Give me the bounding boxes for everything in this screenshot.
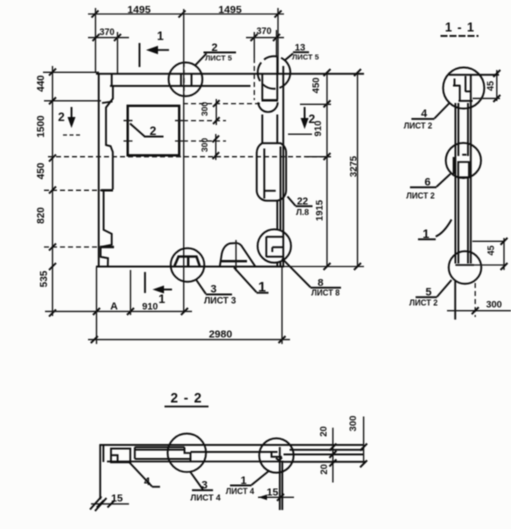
section 2-2 title bbox=[165, 391, 209, 407]
bottom dimension line A / 910 bbox=[45, 267, 192, 344]
bottom rail top edge bbox=[472, 240, 505, 242]
svg-text:1500: 1500 bbox=[36, 115, 47, 138]
right dimension line 450/910/1915 bbox=[300, 69, 331, 270]
section 1-1 base line and 300 bbox=[447, 300, 511, 315]
svg-text:2: 2 bbox=[150, 124, 157, 138]
label 1 / лист 4 bbox=[226, 471, 269, 496]
extension dashes y=247 left bbox=[44, 246, 100, 248]
panel left outer edge bbox=[98, 73, 100, 267]
label 4 (section 2-2) bbox=[130, 463, 161, 489]
svg-text:2980: 2980 bbox=[209, 328, 233, 340]
plank A bbox=[135, 447, 191, 459]
panel top edge bbox=[96, 73, 364, 75]
section 1-1 lower legs bbox=[455, 281, 475, 320]
panel right edge bbox=[282, 66, 284, 267]
svg-text:450: 450 bbox=[36, 162, 47, 179]
dimension 20 upper right bbox=[318, 426, 336, 482]
mullion top joint semicircle bbox=[258, 102, 277, 112]
svg-text:А: А bbox=[110, 301, 118, 313]
section mark 2 left bbox=[58, 107, 80, 135]
svg-text:ЛИСТ 2: ЛИСТ 2 bbox=[409, 299, 438, 308]
svg-text:ЛИСТ 4: ЛИСТ 4 bbox=[226, 487, 255, 496]
svg-text:1: 1 bbox=[258, 279, 266, 295]
section 2-2 top surface bbox=[99, 444, 363, 446]
plank C bbox=[284, 450, 367, 462]
label 8 / лист 8 bbox=[282, 259, 341, 298]
svg-text:910: 910 bbox=[142, 302, 158, 313]
dome detail part 1 bbox=[220, 240, 255, 271]
svg-text:370: 370 bbox=[99, 27, 114, 37]
joint detail in circle 6 bbox=[454, 155, 469, 178]
top rail bottom edge bbox=[110, 85, 251, 87]
opening square bbox=[124, 106, 184, 156]
svg-text:ЛИСТ 2: ЛИСТ 2 bbox=[406, 192, 435, 201]
bottom dimension line 2980 bbox=[88, 267, 290, 344]
svg-text:15: 15 bbox=[111, 493, 123, 505]
section 1-1 title bbox=[441, 21, 479, 36]
svg-text:910: 910 bbox=[313, 121, 324, 137]
svg-text:1: 1 bbox=[240, 475, 246, 487]
svg-text:820: 820 bbox=[36, 207, 47, 224]
detail circle right (1/лист 4) bbox=[259, 438, 293, 472]
svg-text:535: 535 bbox=[39, 270, 50, 287]
svg-text:4: 4 bbox=[144, 476, 151, 488]
svg-text:ЛИСТ 3: ЛИСТ 3 bbox=[204, 296, 236, 306]
label 1 (section) bbox=[418, 220, 452, 242]
svg-text:ЛИСТ 4: ЛИСТ 4 bbox=[190, 493, 221, 503]
svg-text:20: 20 bbox=[319, 464, 330, 475]
extension stub y=101 left bbox=[44, 100, 101, 102]
extension line left x=95.5 bbox=[95, 8, 97, 73]
callout circle 2 top (лист 5) bbox=[169, 62, 203, 96]
dimension 45 bottom bbox=[486, 238, 508, 270]
extension stub y=72 left bbox=[43, 71, 99, 73]
dimension 300 lower at opening bbox=[200, 134, 220, 160]
svg-text:450: 450 bbox=[311, 77, 322, 93]
label 22 / Л.8 bbox=[288, 197, 313, 218]
svg-text:3: 3 bbox=[210, 284, 216, 296]
opening label 2 bbox=[130, 124, 164, 139]
svg-text:20: 20 bbox=[318, 426, 329, 437]
svg-text:2: 2 bbox=[211, 42, 217, 54]
svg-text:6: 6 bbox=[424, 177, 430, 189]
label 6 / лист 2 bbox=[406, 174, 450, 201]
label 3 / лист 3 bbox=[196, 280, 236, 306]
clip detail in circle 8 bbox=[266, 237, 283, 257]
dimension 300 upper at opening bbox=[200, 99, 220, 125]
svg-text:ЛИСТ 5: ЛИСТ 5 bbox=[292, 53, 319, 62]
svg-text:300: 300 bbox=[200, 138, 210, 152]
svg-text:370: 370 bbox=[256, 26, 271, 36]
weld marks in circle 2 bbox=[181, 62, 192, 97]
label 1 (dome) bbox=[234, 268, 269, 295]
top rail left joint verticals bbox=[111, 74, 113, 86]
section mark 2 right bbox=[288, 107, 316, 134]
svg-text:1915: 1915 bbox=[315, 199, 326, 221]
label 3 / лист 4 bbox=[190, 472, 221, 503]
svg-text:1: 1 bbox=[157, 29, 164, 43]
section 1-1 top surface line bbox=[449, 74, 499, 76]
svg-text:5: 5 bbox=[425, 287, 431, 299]
dimension 370 left bbox=[88, 27, 129, 74]
trapezoid detail in circle 3 bbox=[175, 257, 200, 266]
extension dashes y=190 left bbox=[44, 189, 101, 191]
svg-text:ЛИСТ 5: ЛИСТ 5 bbox=[205, 53, 232, 62]
section 2-2 left edge bbox=[100, 445, 103, 500]
svg-text:1495: 1495 bbox=[127, 4, 151, 16]
dashed extension x=254 bbox=[253, 58, 255, 100]
detail circle 6 (middle) bbox=[446, 143, 481, 178]
left dimension line column bbox=[36, 66, 56, 317]
joint step 1 bbox=[185, 447, 191, 461]
svg-text:1: 1 bbox=[159, 292, 166, 306]
svg-text:3275: 3275 bbox=[349, 155, 360, 177]
svg-text:300: 300 bbox=[486, 300, 502, 311]
mullion stadium oval part 22 bbox=[257, 143, 286, 201]
mullion joint line top bbox=[262, 99, 279, 101]
svg-text:4: 4 bbox=[421, 108, 428, 120]
extension line right x=278 bbox=[277, 8, 279, 73]
svg-text:440: 440 bbox=[36, 75, 47, 92]
right dimension line 3275 bbox=[349, 69, 362, 270]
svg-text:ЛИСТ 8: ЛИСТ 8 bbox=[311, 288, 340, 297]
dashed axis line y=120.6 bbox=[183, 120, 226, 122]
panel left profile polyline bbox=[100, 86, 114, 266]
joint step 2 bbox=[272, 447, 283, 471]
svg-text:8: 8 bbox=[318, 277, 324, 289]
svg-text:2: 2 bbox=[58, 110, 65, 124]
long bottom line bbox=[107, 461, 284, 463]
dashed axis line y=103.5 bbox=[183, 103, 262, 105]
label 5 / лист 2 bbox=[409, 280, 451, 308]
dimension 370 right bbox=[246, 26, 284, 58]
svg-text:Л.8: Л.8 bbox=[296, 207, 309, 217]
dimension 15 left bbox=[90, 493, 129, 512]
label 2 / лист 5 bbox=[196, 42, 237, 65]
svg-text:1 - 1: 1 - 1 bbox=[445, 21, 475, 35]
label 13 / лист 5 bbox=[285, 42, 319, 61]
mullion left vertical upper bbox=[261, 75, 263, 144]
svg-text:15: 15 bbox=[267, 487, 279, 499]
section 1-1 wall strip verticals bbox=[455, 75, 470, 264]
section 1-1 top corner bracket bbox=[453, 76, 473, 101]
svg-text:3: 3 bbox=[201, 480, 207, 492]
detail circle 5 (bottom) bbox=[449, 251, 482, 284]
callout circle 8 (лист 8) bbox=[258, 229, 291, 262]
plank B top bbox=[191, 451, 278, 453]
svg-text:1495: 1495 bbox=[218, 4, 242, 16]
centerline x=184 vertical bbox=[183, 9, 185, 313]
svg-text:ЛИСТ 2: ЛИСТ 2 bbox=[404, 122, 433, 131]
dimension 15 right bbox=[258, 462, 294, 510]
long dashed line y=156.7 bbox=[48, 156, 331, 158]
panel bottom edge bbox=[96, 266, 364, 268]
svg-text:300: 300 bbox=[348, 416, 359, 432]
svg-text:1: 1 bbox=[423, 227, 430, 241]
callout circle 3 bottom (лист 3) bbox=[171, 248, 205, 282]
dimension 45 top bbox=[473, 70, 501, 102]
svg-text:45: 45 bbox=[486, 245, 496, 255]
section mark 1 top bbox=[140, 29, 170, 67]
mullion middle vertical bbox=[277, 57, 280, 267]
detail circle 4 (top) bbox=[443, 67, 484, 108]
dimension line 1495+1495 top bbox=[88, 4, 284, 18]
callout circle 13 (лист 5) bbox=[258, 56, 291, 89]
section mark 1 bottom bbox=[145, 272, 172, 306]
svg-text:2 - 2: 2 - 2 bbox=[170, 391, 202, 406]
dashed axis line y=141 bbox=[183, 140, 226, 142]
section 2-2 left clip bbox=[111, 449, 130, 463]
detail circle left (3/лист 4) bbox=[168, 434, 206, 472]
svg-text:45: 45 bbox=[486, 81, 496, 91]
bottom cap line bbox=[455, 264, 506, 266]
dimension 300 right bbox=[348, 416, 367, 468]
label 4 / лист 2 bbox=[404, 104, 449, 131]
